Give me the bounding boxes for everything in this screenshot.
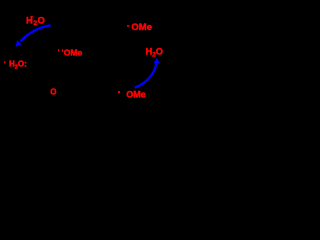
label :OMe (centre methoxy oxygen) [58,48,83,58]
svg-text:OMe: OMe [131,22,152,33]
bottom-centre oxygen O [50,88,56,97]
svg-text:OMe: OMe [126,89,146,99]
svg-text:OMe: OMe [64,48,83,58]
curved arrow (right, tail bottom-left to head top) [135,58,160,88]
label -OMe (bottom-right methoxy with bond stub) [118,89,146,99]
label OH2+ (right protonated oxygen) [146,47,163,59]
label OH2+ (top-left oxygen leaving group) [26,14,45,27]
label H2O: (left oxygen nucleophile) [4,60,27,71]
svg-text:O: O [50,88,56,97]
curved arrow (left, tail top-right to head bottom-left) [16,25,51,47]
label -OMe (top-right methoxy with bond stub) [127,22,152,33]
